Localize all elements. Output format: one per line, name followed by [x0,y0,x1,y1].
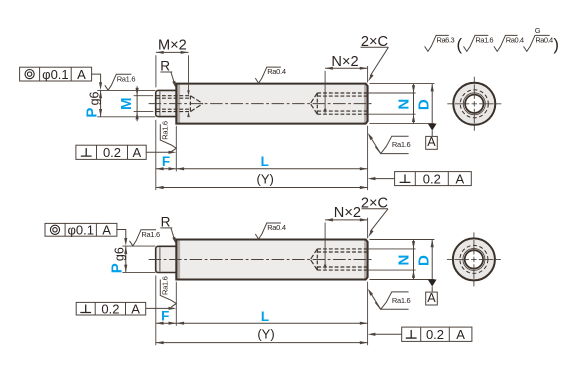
concentricity tolerance frame (top) [20,67,92,81]
hidden lines: right tapped hole outline (top) [317,92,367,94]
svg-text:A: A [77,67,86,82]
end view tapped hole: thread major circle [463,93,485,115]
end view hidden step-diameter circle (dashed) [460,90,488,118]
N thread diameter extension stubs (top) [368,92,416,94]
svg-text:A: A [132,145,141,160]
leader from tolerance frame to step diameter (top) [92,74,101,86]
svg-text:Ra1.6: Ra1.6 [392,140,411,149]
svg-text:0.2: 0.2 [426,327,444,342]
leader from left perpendicularity frame (bottom) [146,307,173,309]
rotated surface roughness Ra1.6 under step (bottom) [160,276,176,307]
general surface roughness note [425,26,559,54]
svg-text:A: A [456,327,465,342]
hidden line: left hole thread end [189,96,191,112]
leader from left perpendicularity frame (top) [146,151,172,153]
svg-text:φ0.1: φ0.1 [67,223,94,238]
dimension line N (bottom) [413,240,415,280]
surface roughness Ra1.6 on right end face (top) [368,133,411,154]
svg-text:g6: g6 [112,247,126,261]
dimension (Y) (bottom) [156,342,368,344]
dimension F (top) [156,168,177,170]
shaft main body (top view) [176,84,367,124]
perpendicularity tolerance frame right (top) [395,172,472,186]
body left shoulder shading band [176,240,180,280]
svg-text:0.2: 0.2 [103,145,121,160]
svg-text:0.2: 0.2 [101,301,119,316]
hidden lines: right hole drill cone (bottom) [310,249,317,260]
svg-text:φ0.1: φ0.1 [42,67,69,82]
hidden lines: right tapped hole outline (bottom) [317,248,367,250]
dimension line N (top) [413,84,415,124]
svg-text:L: L [261,154,269,169]
svg-text:L: L [261,309,269,324]
end view tapped hole: minor circle [465,95,483,113]
surface roughness Ra0.4 on body (top) [255,67,286,83]
svg-text:Ra1.6: Ra1.6 [141,230,160,239]
dimension line D with datum A (top) [431,84,433,124]
surface roughness Ra1.6 on step (top) [105,74,136,90]
svg-text:Ra0.4: Ra0.4 [535,36,553,45]
svg-text:Ra1.6: Ra1.6 [160,121,169,140]
svg-text:A: A [427,135,436,149]
extension lines for D dimension (top) [370,83,435,85]
hidden lines: left tapped hole outline (top) [156,95,190,97]
perpendicularity tolerance frame right (bottom) [402,327,472,341]
dimension line P (bottom) [125,246,127,272]
end view centerlines [447,103,501,105]
rotated surface roughness Ra1.6 under step (top) [160,121,176,152]
dimension F (bottom) [156,322,177,324]
end view centerlines [447,258,501,260]
body left shoulder shading band [176,84,180,124]
surface roughness Ra1.6 on right end face (bottom) [368,289,411,310]
hidden lines: left hole drill cone [190,96,203,104]
step face chamfer line [159,91,161,115]
small step (diameter P) [156,90,177,116]
svg-text:Ra1.6: Ra1.6 [392,296,411,305]
dimension (Y) (top) [156,187,368,189]
concentricity tolerance frame (bottom) [45,223,117,236]
small step (diameter P) [156,246,177,272]
extension lines for P dimension (bottom) [122,245,155,247]
svg-text:A: A [427,291,436,305]
M thread diameter extension stubs (top) [134,95,154,97]
body right chamfer shading band [364,240,368,280]
svg-text:g6: g6 [87,91,101,105]
dimension line M (top) [136,86,138,121]
svg-text:Ra1.6: Ra1.6 [117,74,136,83]
body outline [176,240,367,280]
end view shaft outline circle at 474.3,103.8 [453,83,495,125]
svg-text:D: D [416,99,433,110]
svg-text:F: F [161,309,169,324]
svg-text:M: M [118,98,135,111]
shaft centerline [149,103,374,105]
svg-text:R: R [161,215,171,230]
svg-text:Ra1.6: Ra1.6 [475,36,493,45]
step face chamfer line [159,247,161,271]
svg-text:Ra0.4: Ra0.4 [267,223,286,232]
extension lines for D dimension (bottom) [370,239,435,241]
extension line: shoulder face (top) [175,126,177,172]
svg-text:N: N [395,99,412,110]
end view shaft outline circle at 473.9,259.4 [453,238,495,280]
extension line: shoulder face (bottom) [175,282,177,326]
svg-text:Ra6.3: Ra6.3 [437,36,455,45]
extension line: step face (top) [155,120,157,190]
svg-text:(Y): (Y) [257,171,274,186]
svg-text:N×2: N×2 [331,54,358,70]
dimension L (top) [176,168,367,170]
svg-text:R: R [160,59,170,74]
N thread diameter extension stubs (bottom) [368,248,416,250]
shaft centerline [149,259,374,261]
end view tapped hole: thread major circle [463,248,485,270]
svg-text:P: P [108,263,125,273]
hidden lines: right hole drill cone (top) [310,93,317,104]
svg-text:A: A [102,223,111,238]
svg-text:Ra0.4: Ra0.4 [506,36,524,45]
end view tapped hole: minor circle [465,250,483,268]
svg-text:A: A [131,301,140,316]
hidden line: right hole thread end (top) [316,93,318,114]
svg-text:N: N [395,255,412,266]
shaft main body (bottom view) [176,240,367,280]
leader from tolerance frame to step diameter (bottom) [117,230,126,242]
leader from right perpendicularity frame (top) [371,178,394,180]
svg-text:D: D [416,255,433,266]
surface roughness Ra1.6 on step (bottom) [130,230,161,246]
hidden line: right hole thread end (bottom) [316,249,318,270]
extension line: step face (bottom) [155,276,157,346]
svg-text:N×2: N×2 [334,205,361,221]
dimension line P (top) [100,90,102,116]
svg-text:Ra0.4: Ra0.4 [267,67,286,76]
svg-text:M×2: M×2 [158,37,187,53]
svg-text:(Y): (Y) [257,327,274,342]
dimension line D with datum A (bottom) [431,240,433,280]
svg-text:): ) [553,35,559,54]
dimension L (bottom) [176,322,367,324]
extension lines for P dimension (top) [97,89,155,91]
svg-text:(: ( [457,35,463,54]
body outline [176,84,367,124]
leader from right perpendicularity frame (bottom) [371,333,401,335]
svg-text:A: A [455,171,464,186]
perpendicularity tolerance frame left (top) [76,145,146,159]
svg-text:F: F [162,154,170,169]
svg-text:Ra1.6: Ra1.6 [160,276,169,295]
extension line: right end face (top) [367,126,369,190]
svg-text:0.2: 0.2 [423,171,441,186]
surface roughness Ra0.4 on body (bottom) [255,223,286,239]
perpendicularity tolerance frame left (bottom) [76,302,146,315]
end view hidden step-diameter circle (dashed) [460,245,488,273]
extension line: right end face (bottom) [367,282,369,346]
svg-text:P: P [83,108,100,118]
svg-text:G: G [535,26,541,35]
body right chamfer shading band [364,84,368,124]
